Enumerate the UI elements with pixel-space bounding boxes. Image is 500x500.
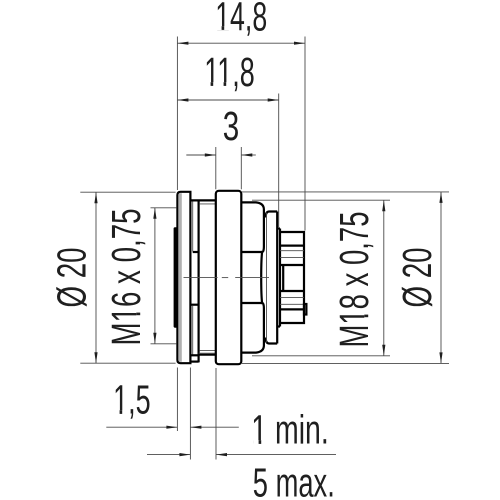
rear block line y245 — [280, 245, 304, 247]
svg-text:1,5: 1,5 — [113, 377, 151, 423]
thread bottom edge — [199, 354, 216, 356]
neck inner vertical top — [192, 202, 194, 252]
svg-text:11,8: 11,8 — [204, 49, 255, 95]
washer C bottom cap — [277, 325, 280, 327]
rear block outline — [280, 232, 304, 323]
thread minor line top — [200, 203, 216, 205]
diameter 20 left extension top — [80, 191, 175, 193]
extension line x241.3 — [240, 147, 242, 189]
svg-text:1 min.: 1 min. — [251, 407, 329, 453]
M16 extension top — [151, 207, 177, 209]
rear block line y257 thin — [280, 256, 304, 258]
svg-text:14,8: 14,8 — [215, 0, 267, 39]
svg-text:Ø 20: Ø 20 — [394, 248, 440, 308]
extension line x278.7 — [278, 94, 280, 228]
serif trim masks for DIN-style 1 glyphs — [114, 26, 368, 444]
extension x190 lower — [189, 368, 191, 460]
dimension 14,8 line — [177, 42, 305, 44]
section B — [266, 212, 278, 344]
rear block line y309 — [280, 308, 304, 310]
M18 extension bottom — [252, 355, 390, 357]
rear block line y250 thin — [280, 250, 304, 252]
rear tab — [304, 304, 306, 315]
section B right edge — [276, 212, 278, 344]
dimension 1,5 lines — [106, 426, 177, 428]
diameter 20 right dim line — [440, 192, 442, 364]
key box bottom edge — [190, 361, 198, 363]
extension line x215.8 — [215, 147, 217, 189]
svg-text:M16 x 0,75: M16 x 0,75 — [103, 209, 149, 346]
extension line x305 — [304, 37, 306, 231]
rear hex section A outline — [241, 202, 264, 352]
extension x216 lower — [215, 368, 217, 460]
collar — [216, 191, 242, 364]
hex face line lower — [241, 302, 262, 304]
flange shading — [179, 193, 182, 362]
keyway groove line — [199, 352, 216, 354]
svg-text:M18 x 0,75: M18 x 0,75 — [331, 212, 377, 348]
gasket — [174, 227, 178, 327]
washer C — [279, 229, 281, 327]
M16 dim line — [154, 208, 156, 344]
neck inner vertical bottom — [192, 306, 194, 355]
diameter 20 right extension bottom — [242, 362, 449, 364]
diameter 20 left dim line — [95, 192, 97, 363]
key box top edge — [190, 354, 198, 356]
extension x177 lower — [176, 368, 178, 432]
thread minor line bottom — [200, 349, 216, 351]
middle box left edge — [282, 265, 284, 291]
svg-text:Ø 20: Ø 20 — [48, 248, 94, 308]
rear block line y304 thin — [280, 303, 304, 305]
extension line left top — [176, 37, 178, 191]
dimension 3 lines — [186, 154, 216, 156]
diameter 20 right extension top — [242, 191, 449, 193]
hex face line upper — [241, 251, 262, 253]
neck step cap top — [193, 251, 199, 253]
thread start line — [198, 200, 200, 362]
rear block line y291 — [281, 290, 304, 292]
flange — [177, 192, 190, 363]
dimension 11,8 line — [177, 99, 278, 101]
neck step cap bottom — [190, 304, 198, 306]
washer C top cap — [277, 227, 280, 229]
M18 extension top — [252, 199, 390, 201]
M16 extension bottom — [151, 343, 177, 345]
neck top edge — [190, 199, 215, 201]
section B inner line — [266, 213, 268, 343]
diameter 20 left extension bottom — [80, 362, 175, 364]
rear block line y265 — [281, 264, 304, 266]
dimension min max lines — [147, 454, 190, 456]
centerline — [184, 277, 270, 279]
svg-text:5 max.: 5 max. — [253, 459, 335, 500]
svg-text:3: 3 — [223, 103, 240, 149]
rear block line y297 thin — [280, 297, 304, 299]
M18 dim line — [383, 200, 385, 356]
